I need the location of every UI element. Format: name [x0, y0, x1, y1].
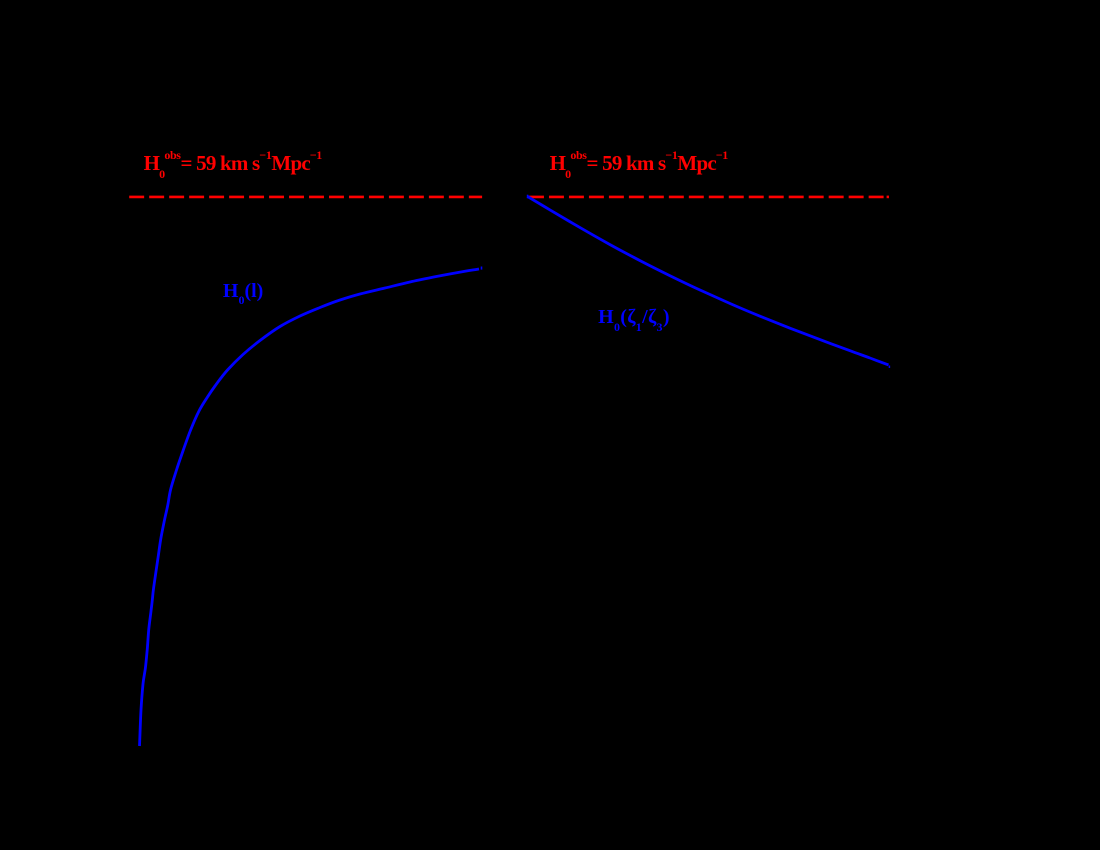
right panel: small blue tick at start of descending curve [527, 195, 529, 199]
left panel label: H0^obs = 59 km s^-1 Mpc^-1 (red) [144, 153, 322, 174]
right panel label: H0^obs = 59 km s^-1 Mpc^-1 (red) [550, 153, 728, 174]
right panel curve label: H0(zeta1/zeta3) (blue) [598, 307, 670, 327]
right panel: small blue tick at right end of descending curve [888, 366, 890, 369]
left panel: small blue tick at right end of H0(l) curve [481, 267, 483, 270]
right panel: blue curve H0(zeta1/zeta3) descending to the right [527, 196, 888, 365]
right panel: final short red dash nub at line end [887, 196, 889, 199]
left panel: red dashed horizontal line H0^obs level [129, 196, 482, 199]
left panel curve label: H0(l) (blue) [223, 281, 263, 301]
left panel: blue curve H0(l) rising from bottom left [140, 269, 480, 746]
right panel: red dashed horizontal line H0^obs level [529, 196, 889, 199]
